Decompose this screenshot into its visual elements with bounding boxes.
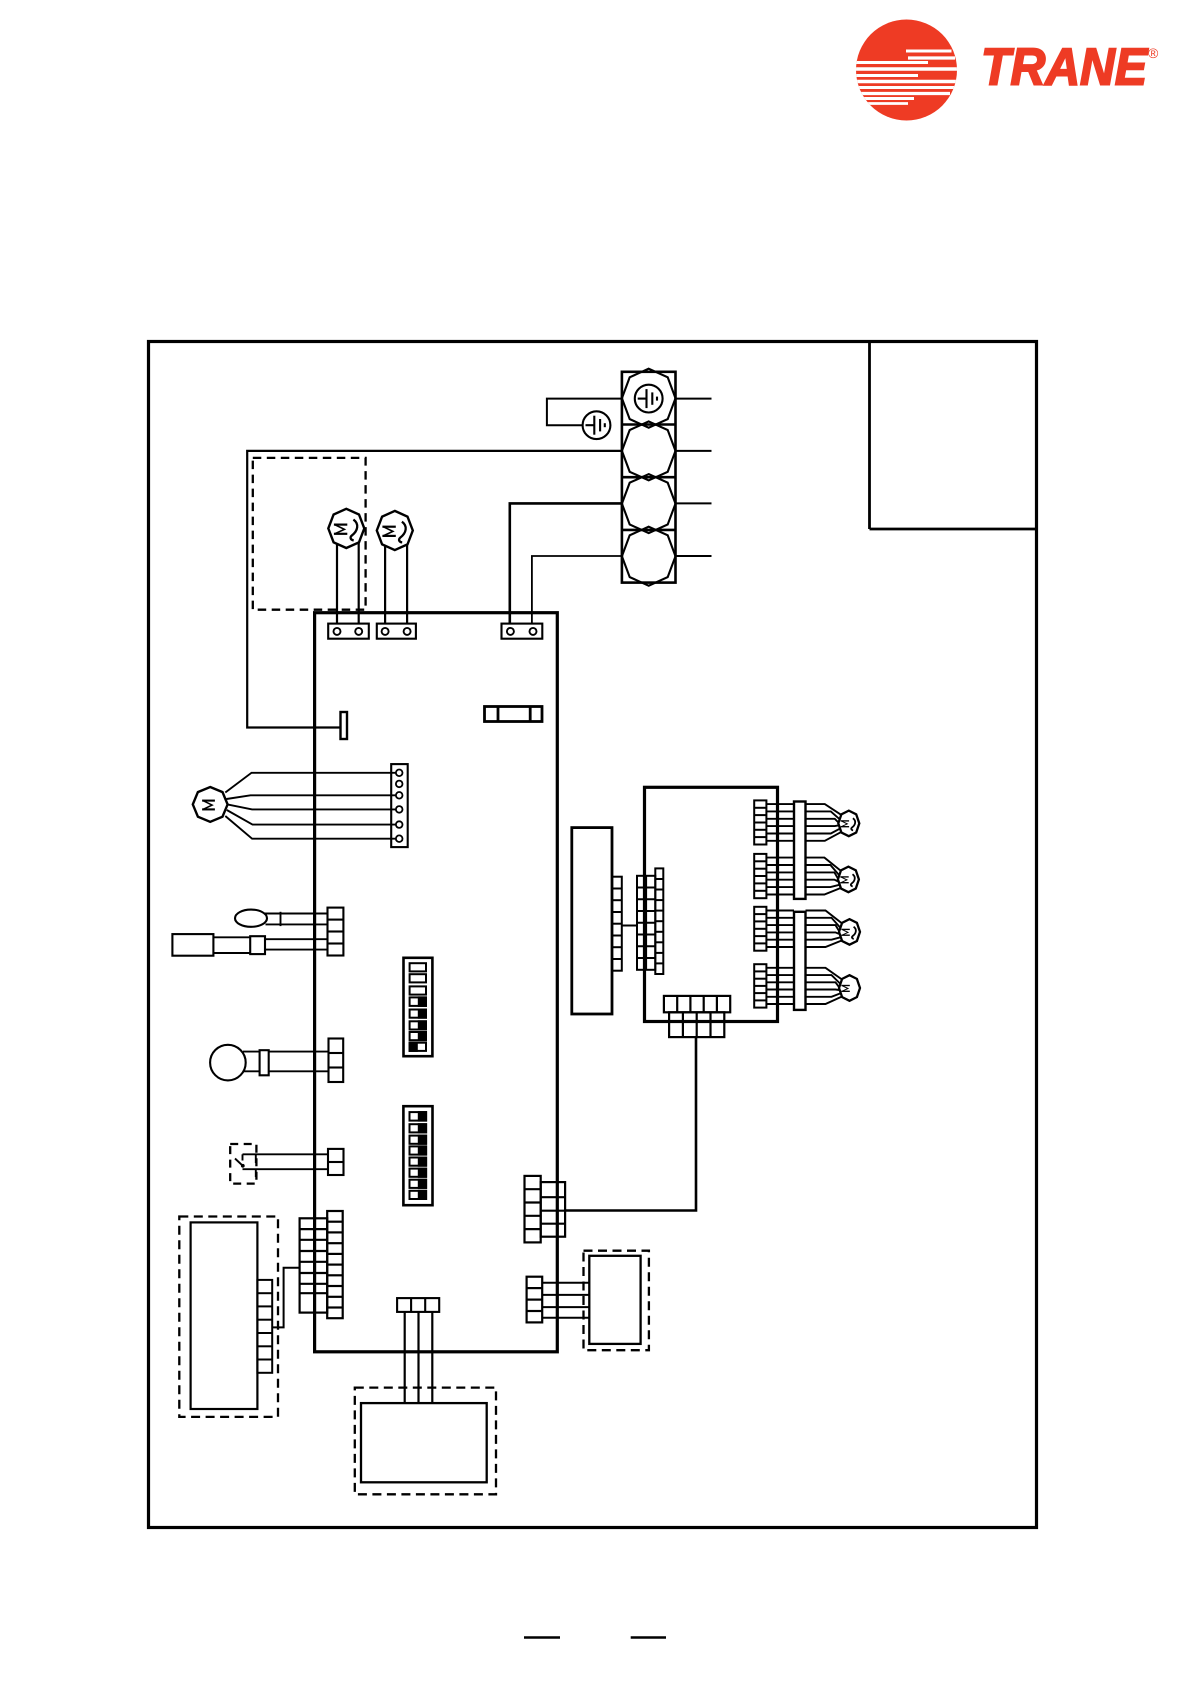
svg-text:®: ®: [1148, 45, 1159, 61]
svg-text:TRANE: TRANE: [981, 39, 1148, 97]
